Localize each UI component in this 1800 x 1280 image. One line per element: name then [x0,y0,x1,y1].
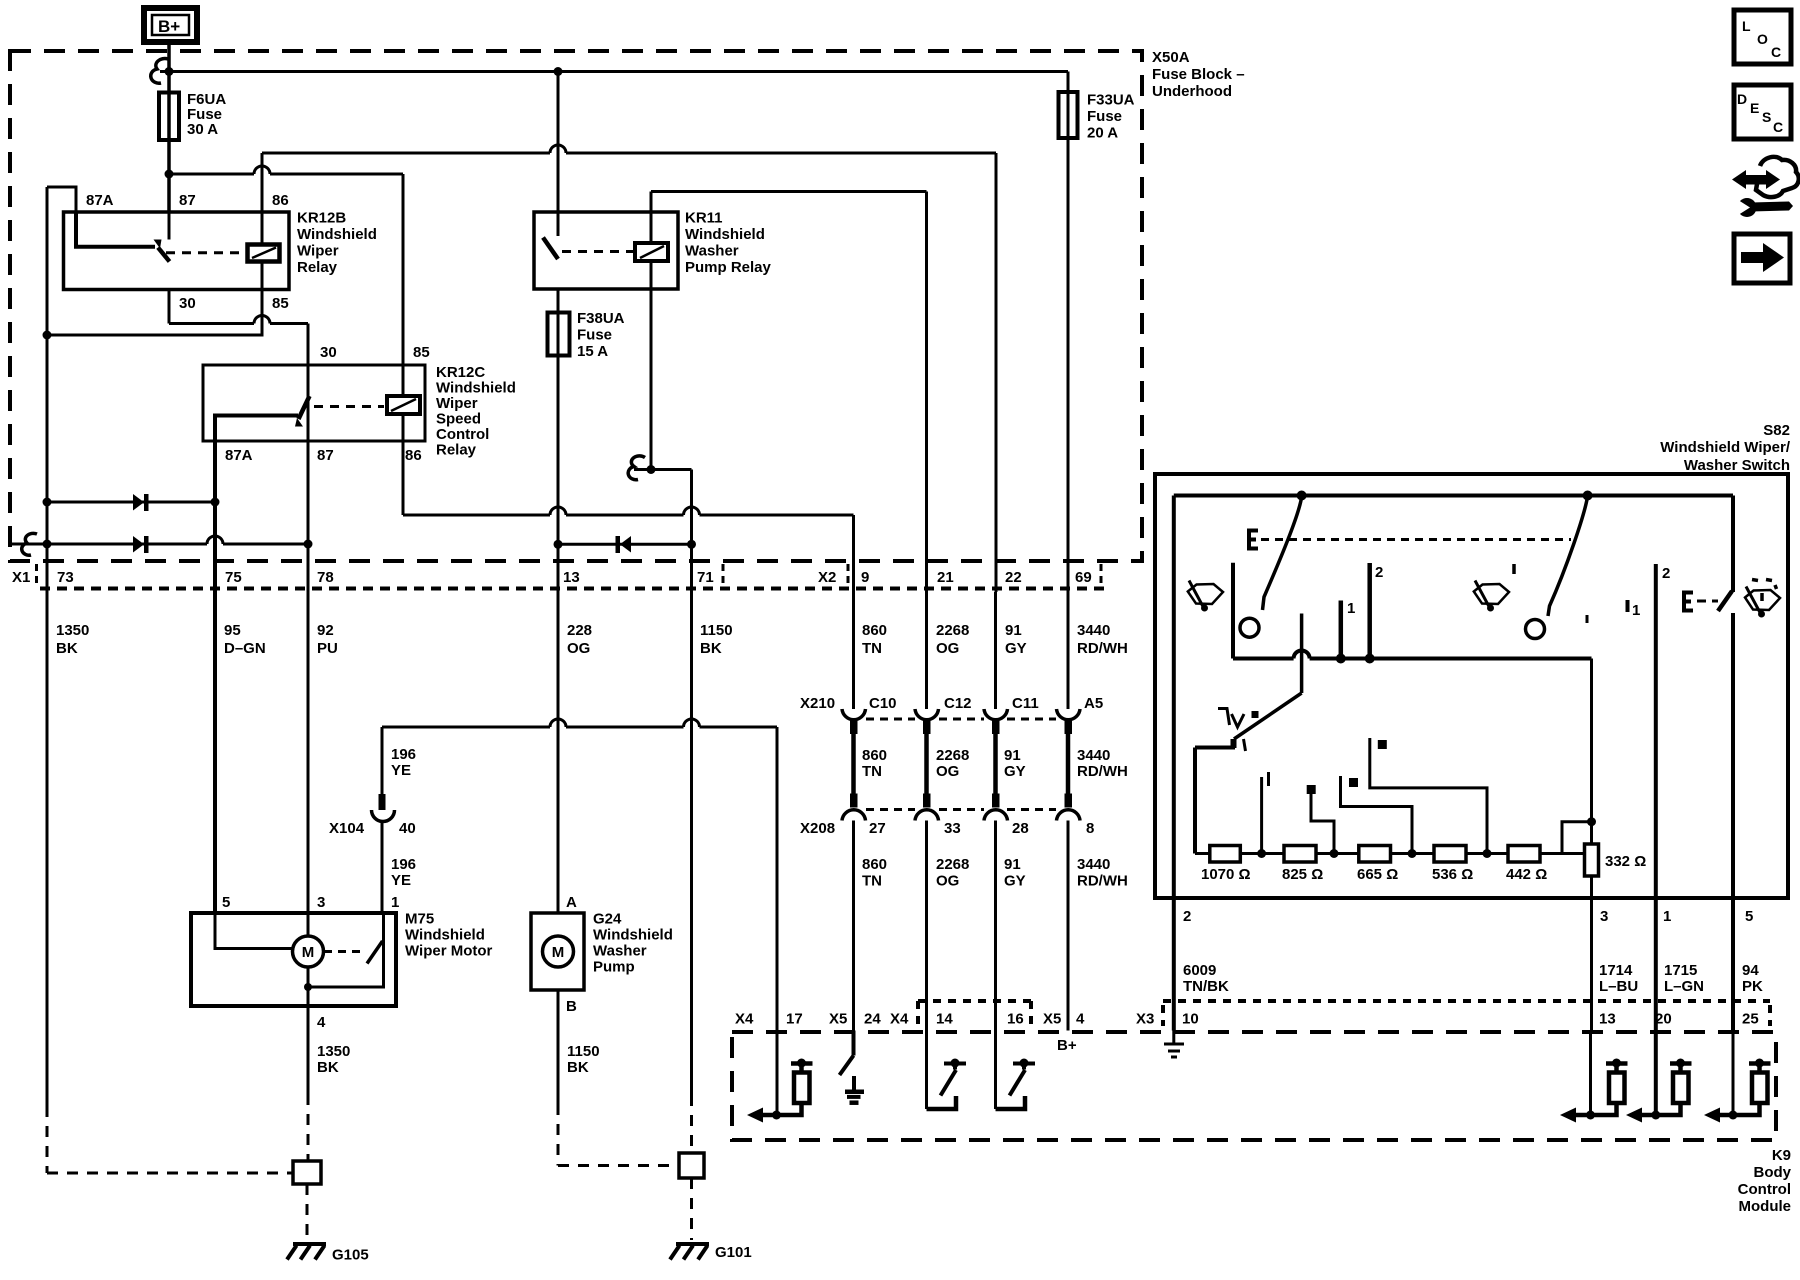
svg-text:TN: TN [862,763,882,780]
svg-text:860: 860 [862,856,887,873]
svg-text:X104: X104 [329,820,365,837]
svg-text:2: 2 [1375,564,1383,581]
svg-text:X1: X1 [12,569,30,586]
svg-text:Pump Relay: Pump Relay [685,259,772,276]
svg-text:TN/BK: TN/BK [1183,978,1229,995]
svg-text:PU: PU [317,640,338,657]
svg-text:G101: G101 [715,1244,752,1261]
svg-text:BK: BK [317,1059,339,1076]
svg-text:TN: TN [862,873,882,890]
svg-text:825 Ω: 825 Ω [1282,866,1323,883]
svg-text:Control: Control [436,426,489,443]
svg-text:6009: 6009 [1183,962,1216,979]
svg-text:C10: C10 [869,695,897,712]
svg-text:BK: BK [700,640,722,657]
svg-text:13: 13 [563,569,580,586]
svg-text:2268: 2268 [936,856,969,873]
svg-text:RD/WH: RD/WH [1077,873,1128,890]
svg-text:Module: Module [1739,1198,1792,1215]
svg-text:22: 22 [1005,569,1022,586]
svg-text:GY: GY [1005,640,1027,657]
svg-text:PK: PK [1742,978,1763,995]
svg-text:20 A: 20 A [1087,125,1118,142]
svg-text:C12: C12 [944,695,972,712]
svg-text:87: 87 [179,192,196,209]
svg-text:196: 196 [391,746,416,763]
svg-text:D–GN: D–GN [224,640,266,657]
svg-text:91: 91 [1005,622,1022,639]
svg-text:3440: 3440 [1077,856,1110,873]
svg-text:9: 9 [861,569,869,586]
svg-text:665 Ω: 665 Ω [1357,866,1398,883]
svg-text:87: 87 [317,447,334,464]
svg-text:Underhood: Underhood [1152,83,1232,100]
svg-text:8: 8 [1086,820,1094,837]
svg-text:Wiper: Wiper [436,395,478,412]
svg-text:G24: G24 [593,911,622,928]
svg-text:25: 25 [1742,1011,1759,1028]
svg-text:30: 30 [179,295,196,312]
svg-text:75: 75 [225,569,242,586]
svg-text:X50A: X50A [1152,49,1190,66]
svg-text:KR11: KR11 [685,210,723,227]
svg-text:228: 228 [567,622,592,639]
svg-text:YE: YE [391,872,411,889]
svg-text:3440: 3440 [1077,622,1110,639]
svg-text:30: 30 [320,344,337,361]
svg-text:Washer: Washer [593,943,647,960]
svg-text:4: 4 [317,1014,326,1031]
svg-text:16: 16 [1007,1011,1024,1028]
svg-text:Windshield: Windshield [436,380,516,397]
svg-text:L–GN: L–GN [1664,978,1704,995]
svg-text:Body: Body [1754,1164,1792,1181]
svg-text:X4: X4 [890,1011,909,1028]
svg-text:Windshield: Windshield [405,927,485,944]
svg-text:TN: TN [862,640,882,657]
svg-text:Washer: Washer [685,243,739,260]
svg-text:92: 92 [317,622,334,639]
svg-text:1: 1 [1632,602,1640,619]
svg-text:860: 860 [862,747,887,764]
svg-text:B+: B+ [1057,1037,1077,1054]
svg-text:E: E [1750,100,1759,116]
svg-text:91: 91 [1004,856,1021,873]
svg-text:X4: X4 [735,1011,754,1028]
svg-text:Speed: Speed [436,411,481,428]
svg-text:A5: A5 [1084,695,1103,712]
svg-text:78: 78 [317,569,334,586]
svg-text:2268: 2268 [936,747,969,764]
svg-text:OG: OG [567,640,590,657]
svg-text:G105: G105 [332,1247,369,1264]
svg-text:1350: 1350 [317,1043,350,1060]
svg-text:Wiper Motor: Wiper Motor [405,943,493,960]
svg-text:C11: C11 [1012,695,1039,712]
svg-text:332 Ω: 332 Ω [1605,853,1646,870]
svg-text:L: L [1742,18,1751,34]
svg-text:X3: X3 [1136,1011,1154,1028]
svg-text:1350: 1350 [56,622,89,639]
svg-text:M: M [552,944,565,961]
svg-text:X210: X210 [800,695,835,712]
svg-text:S: S [1762,109,1771,125]
svg-text:C: C [1771,44,1781,60]
svg-text:14: 14 [936,1011,953,1028]
svg-text:K9: K9 [1772,1147,1791,1164]
svg-text:Windshield Wiper/: Windshield Wiper/ [1660,439,1791,456]
svg-text:860: 860 [862,622,887,639]
svg-text:21: 21 [937,569,954,586]
svg-text:KR12C: KR12C [436,364,485,381]
svg-text:3: 3 [317,894,325,911]
svg-text:28: 28 [1012,820,1029,837]
svg-text:86: 86 [272,192,289,209]
svg-text:BK: BK [56,640,78,657]
svg-text:RD/WH: RD/WH [1077,640,1128,657]
svg-text:L–BU: L–BU [1599,978,1638,995]
svg-text:Fuse: Fuse [577,327,612,344]
svg-text:X208: X208 [800,820,835,837]
svg-text:D: D [1737,91,1747,107]
svg-text:10: 10 [1182,1011,1199,1028]
svg-text:Control: Control [1738,1181,1791,1198]
svg-text:C: C [1773,119,1783,135]
svg-text:OG: OG [936,640,959,657]
svg-text:Wiper: Wiper [297,243,339,260]
svg-text:196: 196 [391,856,416,873]
svg-text:B+: B+ [158,17,180,36]
svg-text:86: 86 [405,447,422,464]
svg-text:O: O [1757,31,1768,47]
svg-text:24: 24 [864,1011,881,1028]
svg-text:F33UA: F33UA [1087,92,1135,109]
svg-text:1: 1 [1663,908,1671,925]
svg-text:1714: 1714 [1599,962,1633,979]
svg-text:95: 95 [224,622,241,639]
svg-text:85: 85 [272,295,289,312]
svg-text:KR12B: KR12B [297,210,346,227]
svg-text:X5: X5 [1043,1011,1061,1028]
svg-text:1715: 1715 [1664,962,1697,979]
svg-text:33: 33 [944,820,961,837]
svg-text:87A: 87A [86,192,114,209]
svg-text:4: 4 [1076,1011,1085,1028]
svg-text:2: 2 [1662,565,1670,582]
svg-text:15 A: 15 A [577,343,608,360]
svg-text:X2: X2 [818,569,836,586]
svg-text:442 Ω: 442 Ω [1506,866,1547,883]
svg-text:M: M [302,944,315,961]
svg-text:Fuse: Fuse [1087,108,1122,125]
svg-text:Windshield: Windshield [297,226,377,243]
svg-text:91: 91 [1004,747,1021,764]
svg-text:73: 73 [57,569,74,586]
svg-text:30 A: 30 A [187,121,218,138]
svg-text:87A: 87A [225,447,253,464]
svg-text:17: 17 [786,1011,803,1028]
svg-text:OG: OG [936,763,959,780]
svg-text:3440: 3440 [1077,747,1110,764]
svg-text:1070 Ω: 1070 Ω [1201,866,1251,883]
svg-text:Windshield: Windshield [593,927,673,944]
svg-text:2268: 2268 [936,622,969,639]
svg-text:3: 3 [1600,908,1608,925]
svg-text:13: 13 [1599,1011,1616,1028]
svg-text:27: 27 [869,820,886,837]
svg-text:Washer Switch: Washer Switch [1684,457,1790,474]
svg-text:2: 2 [1183,908,1191,925]
svg-text:5: 5 [1745,908,1753,925]
svg-text:BK: BK [567,1059,589,1076]
svg-text:GY: GY [1004,763,1026,780]
svg-text:M75: M75 [405,911,434,928]
svg-text:YE: YE [391,762,411,779]
svg-text:69: 69 [1075,569,1092,586]
svg-text:85: 85 [413,344,430,361]
svg-text:536 Ω: 536 Ω [1432,866,1473,883]
svg-text:1: 1 [1347,600,1355,617]
svg-text:40: 40 [399,820,416,837]
svg-text:94: 94 [1742,962,1759,979]
svg-text:1150: 1150 [700,622,733,639]
svg-text:71: 71 [697,569,714,586]
svg-text:RD/WH: RD/WH [1077,763,1128,780]
svg-text:Relay: Relay [436,442,477,459]
svg-text:GY: GY [1004,873,1026,890]
svg-text:Fuse Block –: Fuse Block – [1152,66,1245,83]
svg-text:1150: 1150 [567,1043,600,1060]
svg-text:OG: OG [936,873,959,890]
svg-text:Windshield: Windshield [685,226,765,243]
svg-text:X5: X5 [829,1011,847,1028]
svg-text:B: B [566,998,577,1015]
svg-text:S82: S82 [1763,422,1790,439]
svg-text:5: 5 [222,894,230,911]
svg-text:Pump: Pump [593,959,635,976]
svg-text:Relay: Relay [297,259,338,276]
svg-text:1: 1 [391,894,399,911]
svg-text:F38UA: F38UA [577,310,625,327]
svg-text:A: A [566,894,577,911]
